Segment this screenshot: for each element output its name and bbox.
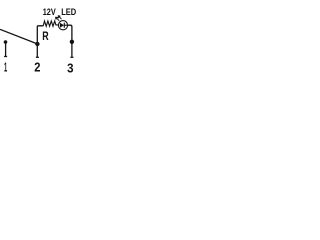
node: pole junction dot (terminal 2) xyxy=(35,42,39,46)
node: junction dot on terminal 3 wire xyxy=(70,40,74,44)
wire: terminal 1 stub xyxy=(5,42,7,56)
LED emission arrow 1 xyxy=(56,17,59,20)
svg-text:LED: LED xyxy=(61,6,76,17)
svg-text:1: 1 xyxy=(4,60,7,74)
resistor R zigzag xyxy=(43,21,58,26)
LED triangle anode xyxy=(60,23,64,28)
svg-text:2: 2 xyxy=(34,61,40,75)
svg-text:3: 3 xyxy=(67,60,73,75)
LED internal wire xyxy=(64,24,67,26)
LED cathode bar xyxy=(63,23,65,28)
wire: switch lever diagonal from left edge to pole dot xyxy=(0,29,37,44)
LED D1: circle xyxy=(58,21,67,30)
label 12V LED xyxy=(43,6,77,17)
wire: mid vertical with corner to resistor feed xyxy=(37,26,43,57)
terminal 3 tick xyxy=(70,56,73,58)
svg-text:12V: 12V xyxy=(43,6,57,17)
terminal 1 tick xyxy=(4,56,7,58)
LED emission arrow 2 xyxy=(58,16,61,19)
node: terminal 1 dot xyxy=(4,40,8,44)
terminal 2 tick xyxy=(36,56,39,58)
background xyxy=(0,0,80,80)
svg-text:R: R xyxy=(42,29,48,43)
wire: LED to right vertical down to terminal 3 xyxy=(68,25,72,57)
